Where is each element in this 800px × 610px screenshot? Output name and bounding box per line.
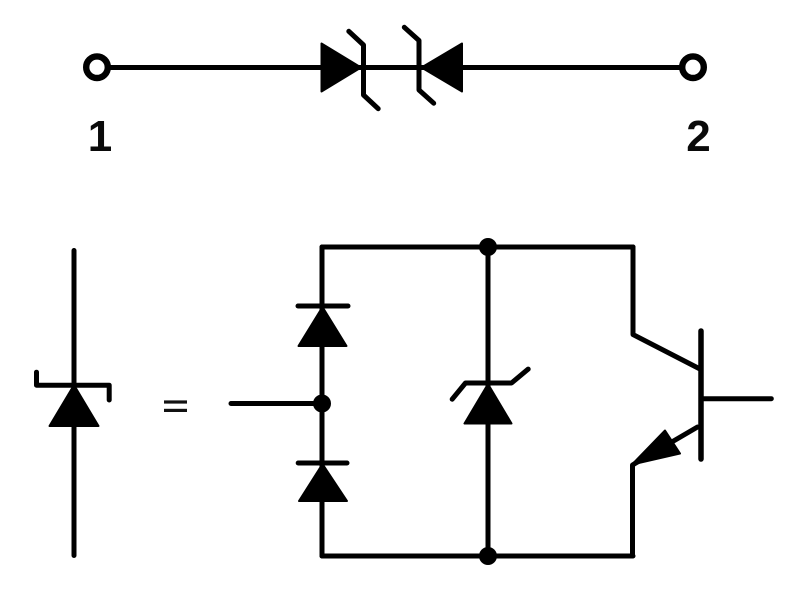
svg-text:1: 1 [88, 112, 112, 161]
svg-text:2: 2 [686, 112, 710, 161]
